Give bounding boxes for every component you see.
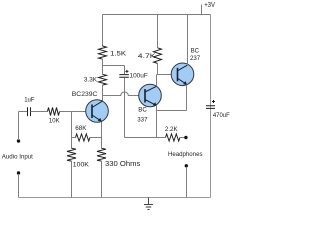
resistor R1 1.5K [99,46,107,59]
svg-text:BC: BC [138,107,147,114]
ground symbol [144,198,153,210]
wire 1uF to 10K [31,111,48,113]
svg-text:3.3K: 3.3K [84,77,98,84]
wire BC237 emitter lead down [186,85,188,111]
wire lead from top rail to R 1.5K [102,15,104,47]
svg-text:237: 237 [190,55,201,62]
svg-text:100K: 100K [73,162,90,169]
transistor Q2 BC337 [139,84,162,107]
wire 10K to BC239C base [60,111,87,113]
svg-text:BC239C: BC239C [72,91,98,98]
wire 100K to ground rail [71,161,73,198]
svg-text:BC: BC [191,47,200,54]
wire audio bottom terminal to ground rail [18,174,20,198]
wire 4.7K to node B [157,63,159,74]
capacitor 100uF bottom lead to output node [124,78,126,138]
resistor R2 3.3K [99,74,107,85]
wire node B to BC237 base [157,74,172,76]
wire base tee down to 68K node [71,112,73,138]
wire right supply rail [210,15,212,198]
transistor Q3 BC237 [171,63,194,86]
wire lead 3.3K to collector wire [102,85,104,95]
wire headphone bottom to ground rail [186,167,188,198]
resistor R7 4.7K [154,48,162,64]
capacitor C1 1uF plates [28,107,31,116]
capacitor C2 100uF top lead [124,66,126,75]
wire +3V stub [201,5,203,15]
wire BC239C emitter lead [101,121,103,137]
resistor R6 330 Ohms [97,148,106,161]
resistor R8 2.2K [166,134,180,141]
wire BC337 collector lead to node B [156,75,158,87]
wire lead to 330 [101,138,103,149]
terminal headphones bottom [185,164,188,167]
wire 68K left lead [72,137,76,139]
wire lead top rail to 4.7K [157,15,159,48]
capacitor 470uF polarity + [212,100,215,103]
wire audio top terminal [18,112,20,141]
wire BC239C collector stub [102,96,104,102]
svg-text:2.2K: 2.2K [165,126,179,133]
wire lead 1.5K to 3.3K through node A [102,59,104,74]
capacitor C3 470uF plates [206,106,215,109]
resistor R4 68K [76,134,90,141]
svg-text:4.7K: 4.7K [138,53,157,60]
wire 68K right lead to emitter node [90,137,102,139]
svg-text:10K: 10K [49,119,60,125]
resistor R5 100K [67,148,76,161]
wire 330 to ground rail [101,161,103,198]
svg-text:1uF: 1uF [24,98,35,104]
svg-text:Audio Input: Audio Input [2,153,33,160]
svg-text:470uF: 470uF [213,112,230,119]
terminal audio input bottom [17,171,20,174]
wire output node to 2.2K [125,137,166,139]
terminal audio input top [17,139,20,142]
transistor Q1 BC239C [86,100,109,123]
wire emitter join to BC337 emitter [157,110,187,112]
capacitor 100uF polarity + [125,70,128,73]
wire BC239C collector to BC337 base with hop over cap lead [103,92,140,96]
svg-text:330 Ohms: 330 Ohms [105,161,141,168]
capacitor 100uF plates [119,75,129,78]
wire BC337 emitter lead to output node [156,106,158,138]
wire node A to 100uF top [103,65,125,67]
wire audio to 1uF [19,111,28,113]
svg-text:100uF: 100uF [130,73,148,80]
wire top supply rail [103,14,211,16]
resistor R3 10K [48,108,60,116]
svg-text:Headphones: Headphones [168,151,203,158]
svg-text:68K: 68K [75,125,87,132]
wire lead to 100K [71,138,73,149]
wire 2.2K to headphone terminal [180,137,184,139]
terminal headphones top [184,136,187,139]
wire bottom ground rail [19,197,211,199]
svg-text:+3V: +3V [204,2,215,9]
wire BC237 collector lead to top rail [187,15,189,66]
svg-text:1.5K: 1.5K [110,51,127,58]
svg-text:337: 337 [137,116,148,123]
